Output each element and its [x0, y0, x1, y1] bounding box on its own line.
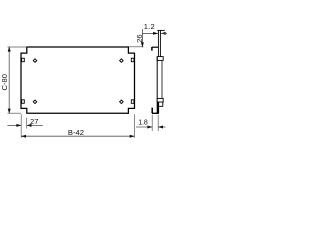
slot bottom-right [131, 100, 134, 104]
side view flange left line [157, 30, 159, 56]
dimension 1.2 label [144, 22, 155, 31]
dimension B-42 arrow right [130, 135, 135, 138]
side view top cap [157, 29, 165, 31]
dimension C-80 arrow bottom [8, 109, 11, 114]
svg-text:B-42: B-42 [68, 128, 84, 137]
hole bottom-right [120, 100, 124, 104]
side view channel bottom closing [159, 102, 163, 106]
dimension 1.8 label [138, 119, 148, 126]
hole bottom-left [33, 100, 37, 104]
top edge extension line right [129, 46, 144, 48]
dimension C-80 line [8, 47, 10, 113]
svg-text:27: 27 [30, 117, 38, 126]
side view flange right line [159, 30, 161, 56]
slot top-right [131, 58, 134, 62]
dimension C-80 label [0, 74, 9, 90]
mounting plate outline (front view) [21, 47, 135, 113]
dimension 1.2 line left [142, 32, 158, 34]
side view top hook [152, 47, 159, 51]
dimension 26 arrow [141, 42, 144, 47]
dimension 1.2 line right tail [161, 32, 167, 34]
svg-text:1.2: 1.2 [144, 22, 155, 31]
svg-text:C-80: C-80 [0, 74, 9, 90]
dimension B-42 label [68, 128, 84, 137]
dimension 27 extension lines [21, 114, 27, 138]
dimension B-42 line [21, 135, 134, 137]
dimension 27 label [30, 117, 38, 126]
svg-text:26: 26 [135, 34, 144, 42]
dimension C-80 arrow top [8, 47, 11, 52]
side view lower plate [157, 102, 159, 114]
dimension 26 line [141, 29, 143, 47]
side view channel left line [156, 57, 158, 113]
dimension B-42 arrow left [21, 135, 26, 138]
side view bottom tab [157, 98, 163, 102]
svg-text:1.8: 1.8 [138, 119, 148, 126]
dimension 1.2 arrow left [153, 32, 158, 35]
side view channel right line [161, 60, 163, 98]
side view bottom hook [152, 108, 159, 114]
side view top tab [157, 57, 163, 61]
dimension C-80 extension lines [8, 47, 27, 113]
dimension 27 line [7, 124, 43, 126]
hole top-left [33, 59, 37, 63]
dimension B-42 extension line right [134, 114, 136, 138]
dimension 1.8 extension lines [152, 115, 158, 131]
slot bottom-left [22, 100, 25, 104]
hole top-right [120, 59, 124, 63]
dimension 1.8 arrows [147, 126, 163, 129]
dimension 26 label [135, 34, 144, 42]
dimension 1.2 arrow right [161, 32, 166, 35]
dimension 1.8 line [136, 126, 166, 128]
dimension 27 arrows [16, 124, 31, 127]
slot top-left [22, 58, 25, 62]
